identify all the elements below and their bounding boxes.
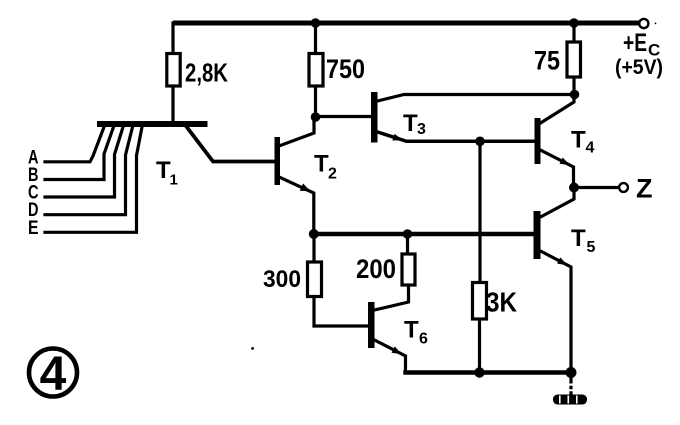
svg-text:(+5V): (+5V) xyxy=(615,56,663,79)
svg-text:5: 5 xyxy=(587,239,596,256)
svg-text:T: T xyxy=(571,225,586,252)
svg-text:3: 3 xyxy=(417,121,426,138)
svg-text:200: 200 xyxy=(356,254,396,284)
svg-text:6: 6 xyxy=(419,331,428,348)
svg-text:E: E xyxy=(28,218,39,239)
svg-text:T: T xyxy=(404,317,419,344)
svg-text:75: 75 xyxy=(534,46,560,76)
svg-text:4: 4 xyxy=(586,140,595,157)
svg-text:T: T xyxy=(571,127,586,154)
svg-text:Z: Z xyxy=(636,174,653,204)
svg-text:300: 300 xyxy=(263,266,301,293)
svg-text:T: T xyxy=(403,110,418,137)
svg-text:2: 2 xyxy=(328,166,337,183)
svg-text:750: 750 xyxy=(326,54,365,84)
svg-text:3K: 3K xyxy=(486,287,517,318)
svg-text:1: 1 xyxy=(170,172,178,189)
svg-text:+E: +E xyxy=(623,29,647,57)
svg-text:2,8K: 2,8K xyxy=(185,58,228,88)
svg-text:4: 4 xyxy=(40,348,67,401)
svg-text:T: T xyxy=(314,151,329,178)
